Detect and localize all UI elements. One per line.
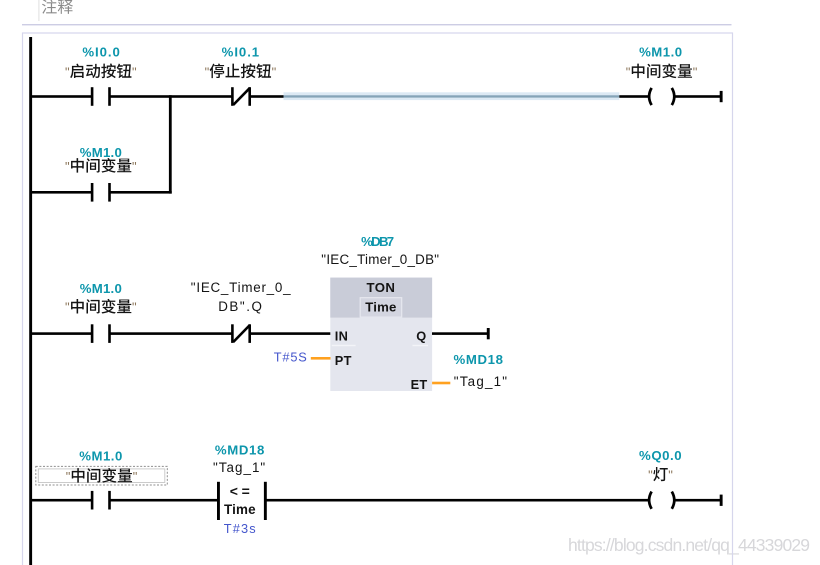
svg-text:": " — [132, 159, 137, 174]
left power rail — [29, 37, 32, 565]
wire: coil Q0.0 to end tick — [675, 499, 721, 502]
svg-text:TON: TON — [366, 280, 395, 295]
rung2 wire: rail to contact M1.0 — [31, 332, 92, 335]
svg-text:%M1.0: %M1.0 — [79, 448, 122, 463]
svg-text:IN: IN — [335, 329, 348, 344]
wire: rail to contact I0.0 — [31, 95, 92, 98]
svg-text:"IEC_Timer_0_: "IEC_Timer_0_ — [191, 280, 291, 295]
timer block header — [330, 278, 432, 318]
svg-text:": " — [65, 300, 70, 315]
svg-text:": " — [66, 469, 71, 484]
branch junction vertical wire — [169, 95, 172, 193]
svg-text:T#5S: T#5S — [274, 350, 307, 365]
contact I0.0 (normally open) — [91, 87, 94, 106]
contact M1.0 (normally open, rung2) — [91, 324, 94, 343]
svg-text:": " — [132, 300, 137, 315]
svg-text:Q: Q — [416, 329, 426, 344]
svg-text:%M1.0: %M1.0 — [639, 44, 682, 59]
svg-text:"IEC_Timer_0_DB": "IEC_Timer_0_DB" — [321, 252, 439, 267]
svg-text:": " — [626, 64, 631, 79]
svg-text:Time: Time — [224, 502, 256, 517]
svg-text:%I0.0: %I0.0 — [82, 44, 120, 59]
svg-text:": " — [65, 64, 70, 79]
wire: contact I0.1 to selection — [250, 95, 284, 98]
svg-text:DB".Q: DB".Q — [218, 299, 262, 314]
svg-text:PT: PT — [335, 353, 352, 368]
svg-text:": " — [272, 64, 277, 79]
rung 3 end tick — [720, 495, 723, 506]
coil Q0.0 — [649, 492, 652, 509]
coil M1.0 — [649, 88, 652, 105]
rung3 wire: rail to contact M1.0 — [31, 499, 92, 502]
svg-text:Time: Time — [365, 299, 396, 314]
wire: contact DB.Q to timer IN — [250, 332, 331, 335]
svg-text:"Tag_1": "Tag_1" — [454, 374, 508, 389]
orange wire: T#5S to PT — [311, 357, 331, 360]
svg-text:": " — [65, 159, 70, 174]
wire: highlight end to coil M1.0 — [619, 95, 648, 98]
rung 1 end tick — [720, 91, 723, 102]
pin separator under Q — [413, 345, 429, 346]
comment separator line — [22, 24, 732, 25]
comparator block bars — [217, 482, 220, 520]
svg-text:": " — [648, 468, 653, 483]
contact I0.1 (normally closed) — [231, 87, 234, 106]
contact M1.0 (normally open, branch) — [91, 183, 94, 202]
contact M1.0 (normally open, rung3) — [91, 491, 94, 510]
comment text 注释 — [42, 0, 73, 14]
svg-text:%I0.1: %I0.1 — [222, 44, 260, 59]
orange wire: ET output — [432, 382, 450, 385]
timer block TON body — [330, 278, 432, 391]
timer type box Time — [360, 298, 402, 317]
svg-text:": " — [205, 64, 210, 79]
wire: contact I0.0 to contact I0.1 — [110, 95, 232, 98]
selected wire core line — [284, 95, 620, 97]
svg-text:ET: ET — [411, 377, 428, 392]
svg-text:%MD18: %MD18 — [454, 352, 504, 367]
svg-text:": " — [133, 469, 138, 484]
svg-text:": " — [668, 468, 673, 483]
wire: comparator to coil Q0.0 — [266, 499, 648, 502]
svg-text:": " — [693, 64, 698, 79]
pin separator under IN — [332, 345, 356, 346]
selected wire highlight band — [284, 92, 620, 100]
branch wire: contact M1.0 to junction — [110, 191, 172, 194]
svg-text:%M1.0: %M1.0 — [80, 281, 122, 296]
svg-text:%M1.0: %M1.0 — [80, 145, 122, 160]
svg-text:"Tag_1": "Tag_1" — [213, 460, 266, 475]
contact "IEC_Timer_0_DB".Q (normally closed) — [231, 324, 234, 343]
branch wire: rail to contact M1.0 — [31, 191, 92, 194]
comment field caret line — [38, 0, 39, 21]
svg-text:%MD18: %MD18 — [215, 442, 265, 457]
wire: coil M1.0 to end tick — [675, 95, 721, 98]
svg-text:%DB7: %DB7 — [361, 234, 394, 249]
Q output end tick — [487, 328, 490, 339]
svg-text:": " — [132, 64, 137, 79]
svg-text:https://blog.csdn.net/qq_44339: https://blog.csdn.net/qq_44339029 — [568, 535, 810, 556]
wire: Q output — [432, 332, 488, 335]
wire: contact M1.0 to contact DB.Q — [110, 332, 232, 335]
svg-text:%Q0.0: %Q0.0 — [639, 448, 682, 463]
edit selection dashed box — [36, 466, 168, 485]
svg-text:T#3s: T#3s — [224, 521, 256, 536]
wire: contact M1.0 to comparator — [110, 499, 218, 502]
